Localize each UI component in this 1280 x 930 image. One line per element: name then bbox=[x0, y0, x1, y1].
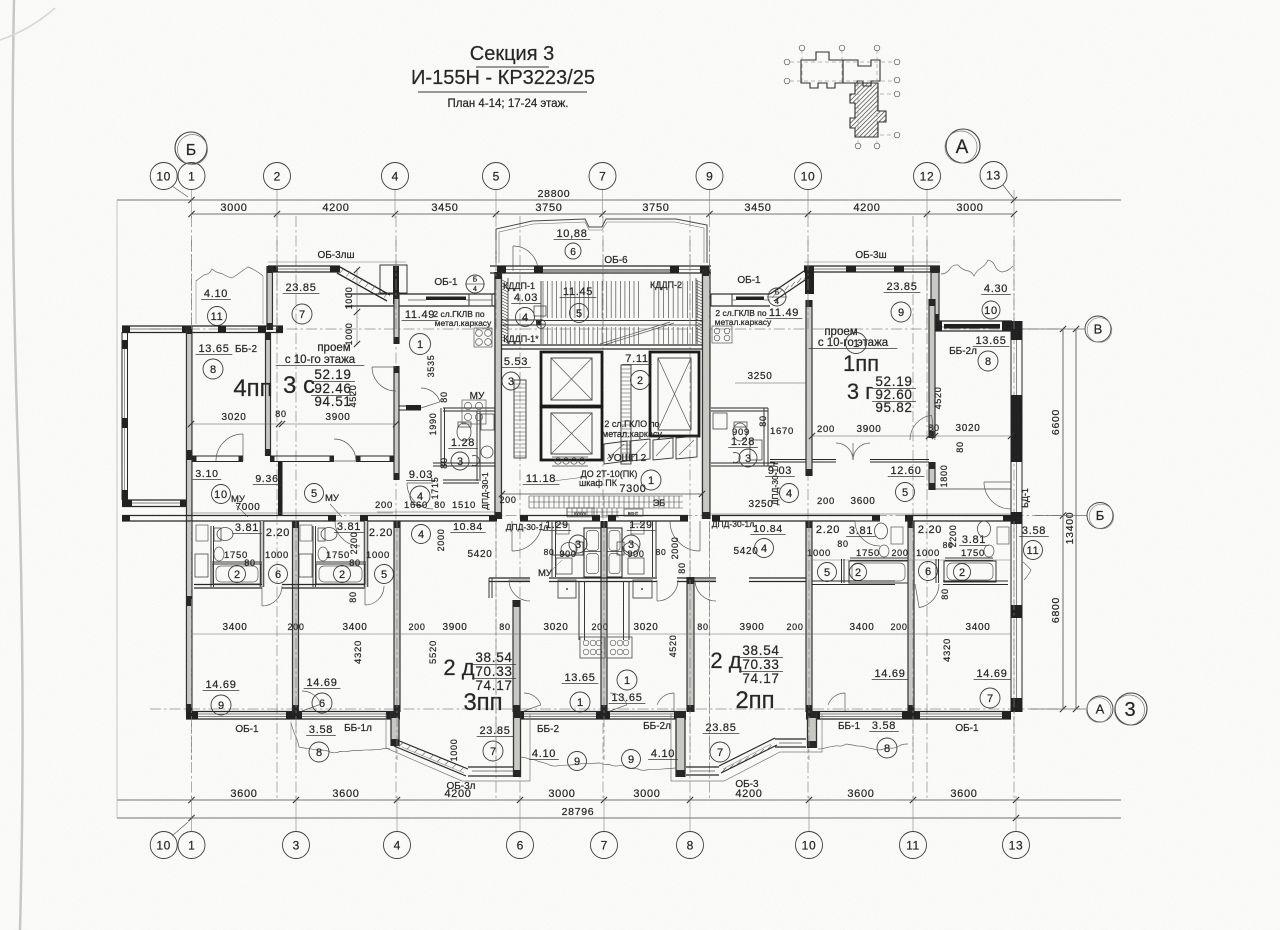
room 5.53 ladder shaft bbox=[514, 380, 526, 458]
elevator shaft 1 bbox=[541, 352, 602, 406]
balcony door arcs bottom wall bbox=[302, 691, 321, 704]
room 3c bottom pier wall bbox=[399, 405, 421, 407]
balcony 4.10 wavy top-left bbox=[196, 267, 263, 281]
kitchen stove right wing bbox=[712, 326, 732, 343]
dims right corridor y509 bbox=[710, 513, 1011, 515]
bottom axis circles bbox=[150, 832, 177, 859]
wash basins left wing bbox=[214, 547, 224, 561]
washbasins centre bbox=[556, 524, 569, 534]
bottom outer wall with windows bbox=[186, 711, 400, 713]
toilet left wing bbox=[457, 423, 471, 441]
hatched columns top bbox=[502, 280, 702, 343]
bottom dimension chains bbox=[117, 799, 1121, 801]
wall on axis B left (y326) with windows ББ-2 bbox=[122, 325, 283, 327]
core left wall bbox=[495, 272, 502, 519]
bathroom band walls left wing bbox=[210, 526, 212, 587]
dims right wing y431 bbox=[812, 435, 1011, 437]
mid landing wall bbox=[501, 344, 702, 346]
tubs right wing bbox=[849, 561, 908, 583]
bathroom bottom wall left wing y585 bbox=[194, 584, 262, 586]
big elevator shaft bbox=[650, 352, 699, 436]
top axis circles bbox=[150, 163, 177, 190]
right wing bathroom bottom wall bbox=[812, 580, 895, 582]
wall ОБ-1 left bbox=[345, 293, 497, 295]
elevator shaft 2 bbox=[541, 407, 602, 460]
kitchen niche walls bbox=[578, 581, 580, 640]
pier axis10 top + wall bbox=[805, 266, 814, 294]
checker band (эл. щитовая floor) bbox=[529, 496, 683, 517]
corridor wall right wing y460 bbox=[770, 459, 806, 461]
wall x929-935 (3г/13.65) bbox=[929, 299, 935, 438]
long corridor wall y515-521 bbox=[122, 515, 336, 517]
boiler bbox=[481, 446, 493, 458]
balcony door top-left of bay bbox=[513, 246, 538, 271]
vent shafts flanking axis 7 bbox=[584, 528, 601, 577]
corridor top wall left wing y456 bbox=[192, 455, 243, 457]
right wing top wall ОБ-1 bbox=[711, 293, 770, 295]
core right wall bbox=[702, 269, 710, 519]
balcony slab outline right bay bbox=[671, 714, 822, 781]
grid dashed axis lines bbox=[135, 216, 1060, 798]
stairs bbox=[543, 281, 697, 344]
bathroom 1.28 right wing bbox=[711, 407, 768, 409]
left wall of room 23.85 bbox=[267, 266, 273, 330]
tubs left wing bbox=[213, 564, 261, 584]
bay 4.30 left wall bbox=[931, 266, 939, 321]
wash basins right wing bbox=[879, 545, 889, 557]
balcony slab outline left bay bbox=[386, 714, 530, 781]
bay 4.30 wavy + window wall bbox=[941, 260, 1013, 276]
toilets left wing bbox=[217, 528, 233, 541]
top centre bay outline (balcony over core) bbox=[496, 219, 707, 263]
pier box at axis 4 top bbox=[380, 265, 407, 293]
dim row y630 bbox=[191, 633, 1011, 635]
hall partition x280 bbox=[278, 462, 283, 515]
right top wall ОБ-3ш bbox=[804, 265, 940, 267]
right bay (2пп) bbox=[676, 711, 685, 777]
axis letter Б top-left bbox=[175, 132, 207, 164]
balcony wavy lines bottom bbox=[291, 723, 390, 753]
appliance MU left wing bbox=[462, 400, 486, 424]
bottom-of-bathrooms wall centre y578-581 bbox=[489, 577, 530, 579]
left corridor dim row bbox=[377, 511, 497, 513]
hall jog wall left bbox=[488, 578, 490, 598]
right dimension chains bbox=[1062, 329, 1064, 709]
left wing inner dim row y420 bbox=[191, 423, 396, 425]
left bay window wall bbox=[121, 332, 123, 500]
core top wall ОБ-6 with windows bbox=[490, 265, 711, 267]
section circle 3 right bbox=[1115, 693, 1147, 725]
bottom half vertical walls bbox=[293, 521, 299, 712]
key plan bbox=[801, 52, 886, 137]
flag circle Б/4 right bbox=[768, 288, 786, 306]
axis dash overlay (over walls) bbox=[192, 240, 1015, 760]
stove icons at elevator bottom bbox=[555, 458, 585, 464]
vestibule КДДП bbox=[502, 319, 541, 321]
right outer wall x1011-1022 bbox=[1010, 321, 1012, 712]
wall between rooms 13.65 and 4пп bbox=[266, 333, 271, 456]
center ladder shaft bbox=[621, 365, 631, 464]
wall axis4 vertical x396 bbox=[394, 292, 399, 344]
wall y321-331 right wing with window bbox=[929, 320, 1012, 322]
storage rects left bbox=[195, 554, 208, 577]
left bay bottom wall bbox=[122, 499, 192, 501]
electrical panels bbox=[604, 436, 697, 464]
stair break diagonal bbox=[600, 322, 670, 344]
diagonal wall right bbox=[770, 269, 807, 294]
left wing top wall ОБ-3лш bbox=[268, 265, 340, 267]
tub room walls right wing bbox=[850, 557, 908, 559]
diagonal wall to core bbox=[340, 267, 390, 295]
axis letter Б right bbox=[1087, 503, 1113, 529]
sink left wing bbox=[481, 414, 494, 430]
kitchen sinks bbox=[558, 580, 576, 598]
axis letter А top-right bbox=[946, 129, 980, 163]
main left wall axis 1 bbox=[186, 326, 192, 712]
toilets centre bbox=[561, 543, 577, 556]
axis letter А right bbox=[1087, 696, 1113, 722]
bathroom block left wing bbox=[443, 407, 497, 409]
center bathrooms bbox=[551, 521, 553, 577]
flag circle Б/4 left bbox=[466, 275, 484, 293]
washer MU bbox=[556, 558, 572, 574]
kitchens centre (stoves) bbox=[580, 637, 605, 658]
left bay (3пп) bbox=[391, 711, 399, 746]
axis letter В right bbox=[1085, 316, 1111, 342]
kitchen stove left wing (top) bbox=[474, 328, 492, 347]
top dimension chains bbox=[117, 199, 1121, 201]
